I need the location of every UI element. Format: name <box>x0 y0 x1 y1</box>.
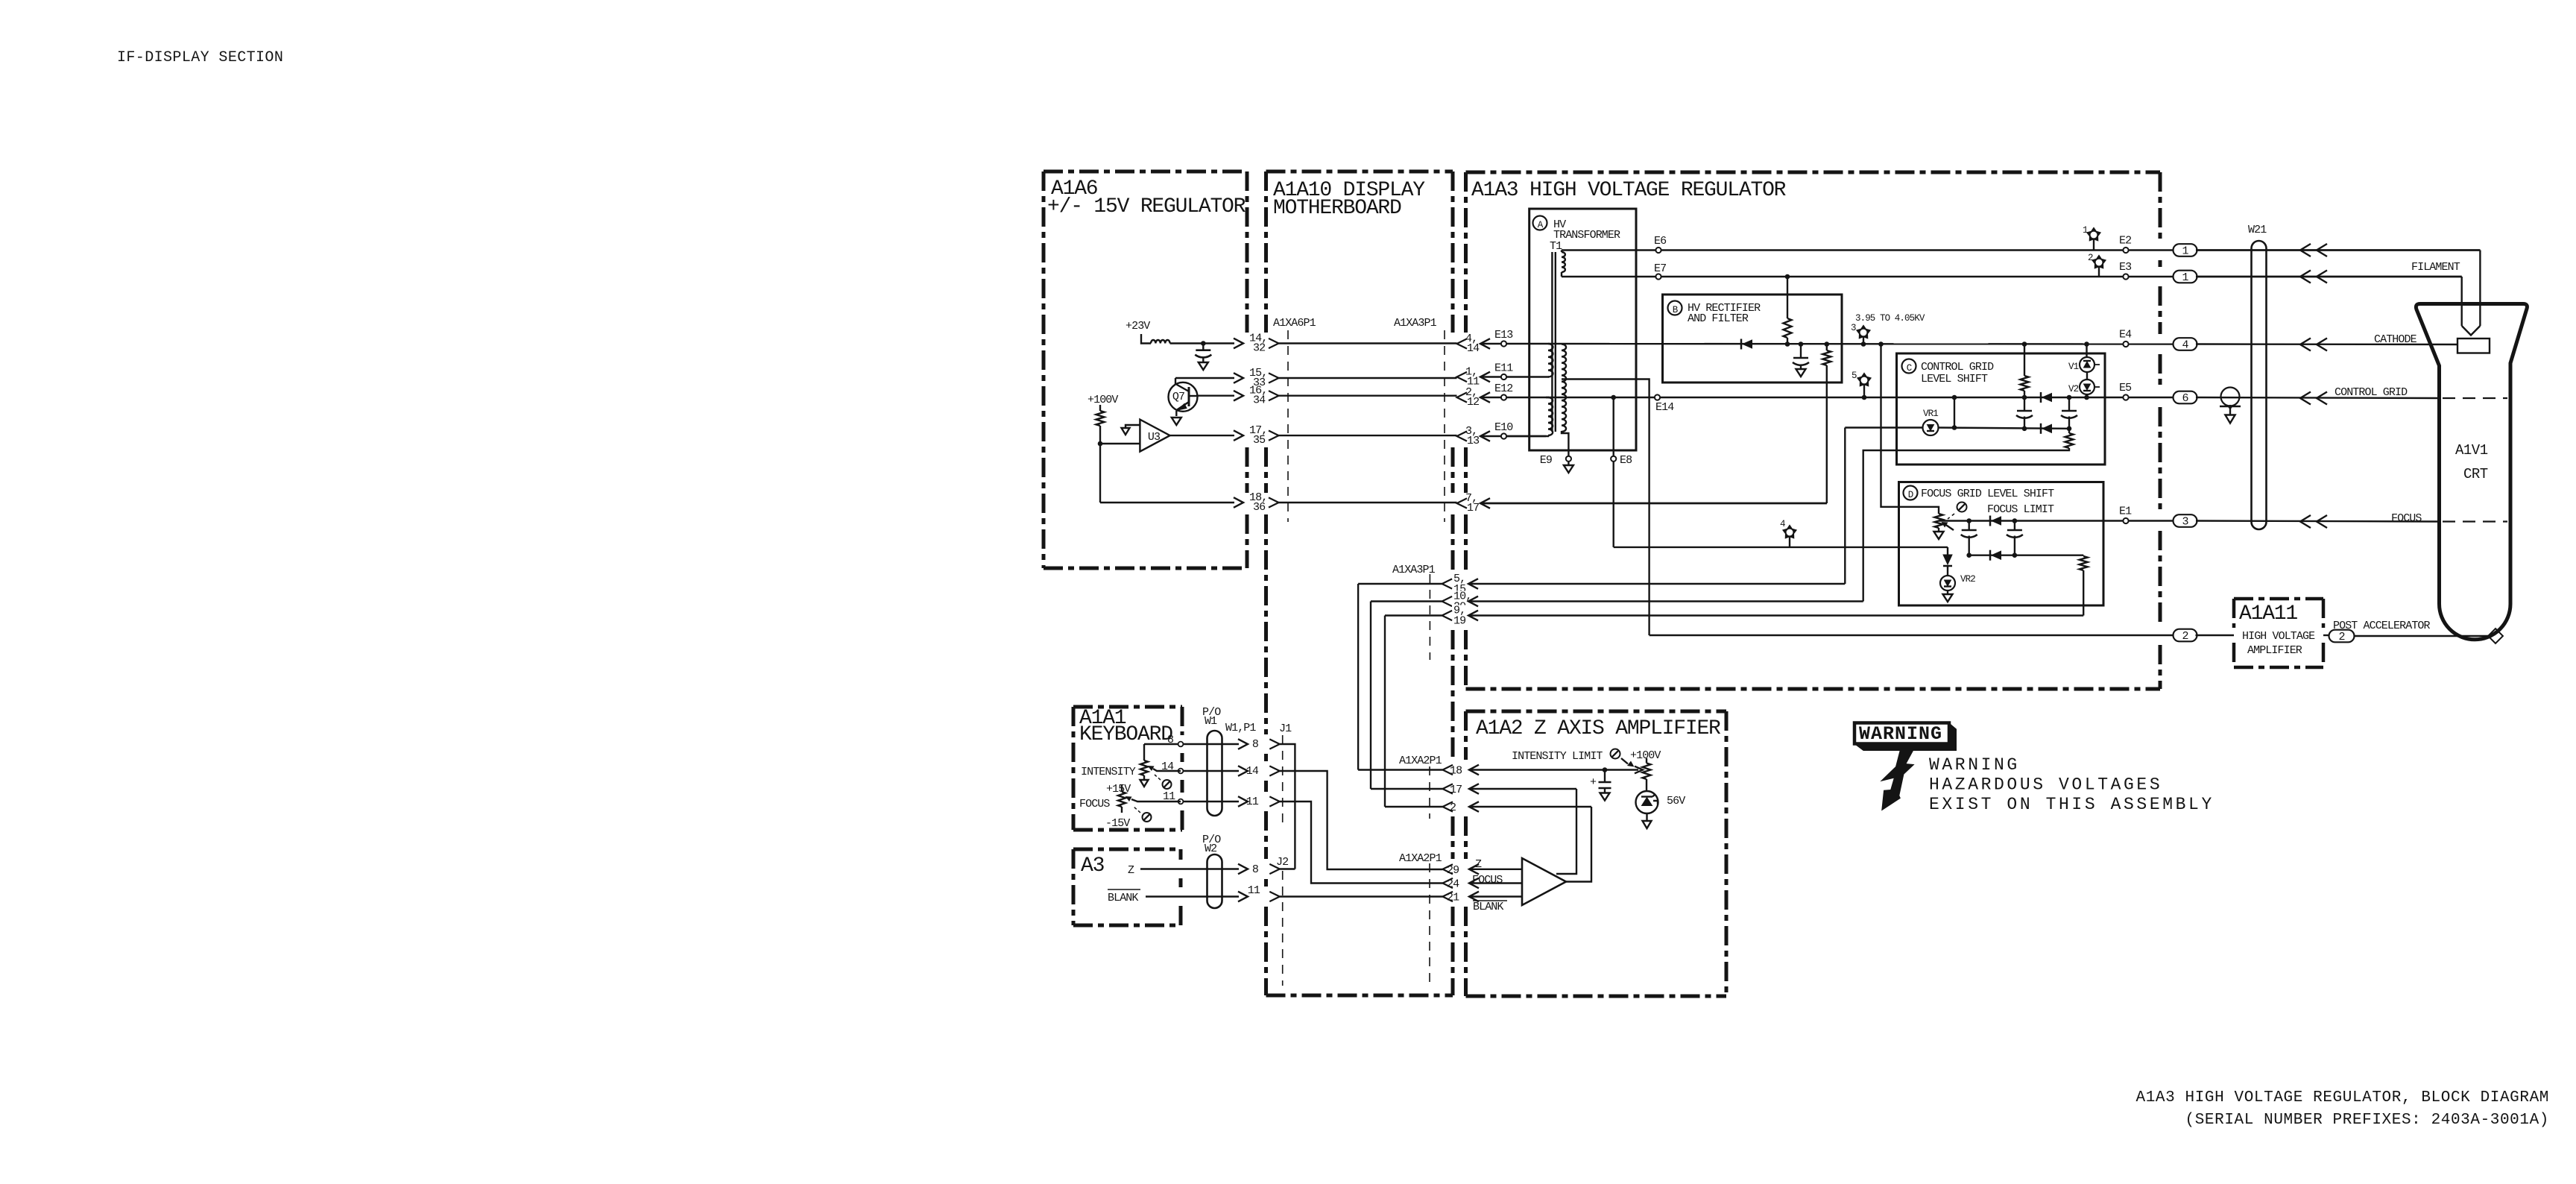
wire row 18 <box>1469 769 1605 770</box>
svg-text:A1XA2P1: A1XA2P1 <box>1399 755 1442 767</box>
svg-text:FOCUS: FOCUS <box>1472 874 1503 887</box>
svg-text:2: 2 <box>1450 802 1456 814</box>
terminal oval 4 <box>2173 338 2197 350</box>
svg-text:WARNING: WARNING <box>1859 723 1942 745</box>
connector chevron 2,12 <box>1457 392 1468 402</box>
resistor R6 <box>2080 556 2088 570</box>
terminal oval 3 <box>2173 514 2197 527</box>
svg-text:32: 32 <box>1253 342 1265 355</box>
svg-text:INTENSITY LIMIT: INTENSITY LIMIT <box>1512 750 1603 763</box>
wire row 2 to amp output <box>1566 807 1591 882</box>
ground <box>1140 780 1149 787</box>
svg-text:2: 2 <box>2182 630 2188 643</box>
junction E7/rectifier <box>1785 274 1790 280</box>
svg-text:J1: J1 <box>1279 722 1292 735</box>
warning lightning bolt <box>1880 751 1914 811</box>
transformer winding left A <box>1548 344 1553 377</box>
wire E13/E4 cathode line <box>1546 343 2174 345</box>
star 5 <box>1857 374 1871 386</box>
ground <box>1643 821 1652 828</box>
svg-text:+15V: +15V <box>1106 783 1131 796</box>
svg-text:CATHODE: CATHODE <box>2374 333 2417 346</box>
wire row 17/35 from U3 <box>1170 435 1234 436</box>
connector chevron 18 <box>1443 765 1453 775</box>
feedthrough <box>1178 742 1184 747</box>
wire into A1A3 <box>1480 376 1549 377</box>
svg-text:11: 11 <box>1248 884 1260 897</box>
box A3 <box>1073 848 1181 851</box>
svg-text:1: 1 <box>2182 271 2188 284</box>
connector chevron 24 <box>1443 878 1453 888</box>
connector line A1XA3P1 upper <box>1444 330 1445 522</box>
VR1 zener <box>1923 420 1939 435</box>
ground at E9 <box>1568 462 1569 465</box>
wire J1-14 to 29 <box>1280 771 1443 869</box>
svg-text:BLANK: BLANK <box>1108 892 1138 904</box>
cable W2 <box>1207 854 1222 908</box>
capacitor C5 <box>1962 529 1977 532</box>
arrow <box>1469 784 1479 794</box>
wiper <box>1153 769 1181 771</box>
op-amp A1A2 <box>1522 858 1566 905</box>
wire into A1A3 <box>1480 503 1827 504</box>
svg-text:E12: E12 <box>1494 382 1512 395</box>
terminal E4 <box>2123 341 2128 347</box>
wire 9,19 left <box>1385 614 1442 616</box>
arrow out 14/32 <box>1234 338 1243 349</box>
svg-text:FOCUS GRID LEVEL SHIFT: FOCUS GRID LEVEL SHIFT <box>1921 488 2054 500</box>
svg-text:8: 8 <box>1252 863 1259 876</box>
connector chevron 5,15 <box>1442 579 1453 588</box>
connector chevron <box>1269 373 1279 382</box>
terminal E12 <box>1501 394 1506 400</box>
wire 10,20 right <box>1468 600 1863 602</box>
connector chevron J1-14 <box>1269 766 1280 775</box>
svg-text:AND FILTER: AND FILTER <box>1688 312 1749 325</box>
svg-text:E5: E5 <box>2119 382 2132 394</box>
control grid dashed <box>2443 397 2507 399</box>
gas tube V1 <box>2080 357 2094 372</box>
potentiometer intensity <box>1140 761 1148 775</box>
svg-text:W2: W2 <box>1205 843 1216 855</box>
connector chevron J1-8 <box>1269 739 1280 749</box>
svg-text:(SERIAL NUMBER PREFIXES: 2403A: (SERIAL NUMBER PREFIXES: 2403A-3001A) <box>2185 1112 2549 1129</box>
wire E7 filament line <box>1562 276 2462 277</box>
wiper <box>1131 799 1181 802</box>
star 2 <box>2092 256 2106 268</box>
wire J1-8 down <box>1280 744 1295 869</box>
arrow in <box>1480 392 1490 403</box>
terminal E3 <box>2123 274 2128 279</box>
svg-text:21: 21 <box>1447 892 1459 904</box>
junction E4/focus feed <box>1878 341 1884 347</box>
svg-text:A1XA6P1: A1XA6P1 <box>1273 317 1316 330</box>
svg-text:FILAMENT: FILAMENT <box>2411 261 2460 274</box>
svg-text:FOCUS LIMIT: FOCUS LIMIT <box>1987 503 2054 516</box>
screwdriver <box>1163 780 1172 789</box>
arrow <box>1468 611 1478 621</box>
ground <box>2225 415 2235 423</box>
wire E8 to E14 line <box>1612 397 1614 456</box>
svg-text:E11: E11 <box>1494 362 1513 375</box>
svg-text:A1XA3P1: A1XA3P1 <box>1394 317 1437 330</box>
wire through motherboard <box>1279 502 1457 503</box>
diode CR5 <box>1989 550 1992 561</box>
wire through motherboard <box>1279 435 1457 436</box>
wire secondary bottom to E9 <box>1562 431 1568 456</box>
arrow <box>1469 802 1479 812</box>
arrow <box>1469 878 1479 889</box>
wire 10/20 to XA2P1-17 <box>1370 602 1371 790</box>
arrow <box>1469 892 1479 902</box>
svg-text:TRANSFORMER: TRANSFORMER <box>1553 229 1620 242</box>
ground below Q7 <box>1172 418 1181 425</box>
screwdriver adjust <box>1957 503 1967 512</box>
connector chevron 10,20 <box>1442 596 1453 606</box>
capacitor C7 <box>1599 781 1611 784</box>
connector chevron J1-11 <box>1269 796 1280 806</box>
terminal E7 <box>1655 274 1661 279</box>
svg-text:INTENSITY: INTENSITY <box>1081 766 1136 778</box>
wire 9,19 right <box>1468 614 2083 616</box>
wire transformer tap to post accel <box>1562 380 1650 636</box>
wire post accel to CRT <box>2355 635 2491 637</box>
arrow <box>2300 244 2311 256</box>
svg-text:24: 24 <box>1447 878 1459 891</box>
svg-text:VR1: VR1 <box>1923 409 1938 419</box>
wire <box>2024 397 2025 411</box>
wire into A1A3 <box>1480 343 1546 344</box>
svg-text:A1A11: A1A11 <box>2239 602 2297 626</box>
arrow in <box>1480 338 1490 349</box>
svg-text:E1: E1 <box>2119 506 2132 518</box>
wire E3 to CRT <box>2196 276 2462 277</box>
connector chevron 7,17 <box>1457 498 1468 508</box>
wire row 18 left <box>1358 769 1442 770</box>
wire +100V to U3/row18 <box>1099 426 1101 503</box>
wire 9/19 to XA2P1-2 <box>1384 616 1386 807</box>
svg-text:IF-DISPLAY SECTION: IF-DISPLAY SECTION <box>117 49 283 66</box>
svg-text:AMPLIFIER: AMPLIFIER <box>2247 644 2302 657</box>
junction <box>1825 341 1830 347</box>
box A1A2 Z axis amplifier <box>1466 710 1727 714</box>
wire through motherboard <box>1279 395 1457 397</box>
arrow <box>2300 271 2311 283</box>
svg-text:A1A3 HIGH VOLTAGE REGULATOR, B: A1A3 HIGH VOLTAGE REGULATOR, BLOCK DIAGR… <box>2136 1089 2550 1106</box>
svg-text:E2: E2 <box>2119 235 2131 248</box>
svg-text:E7: E7 <box>1654 262 1666 275</box>
svg-text:A1A3 HIGH VOLTAGE REGULATOR: A1A3 HIGH VOLTAGE REGULATOR <box>1471 179 1787 202</box>
wire VR1 to diodes <box>1939 428 2070 429</box>
box D focus grid level shift <box>1899 482 2104 606</box>
wire post accelerator line <box>1650 634 2175 636</box>
connector diamond <box>2488 629 2503 643</box>
connector chevron 3,13 <box>1457 431 1468 441</box>
terminal E10 <box>1501 433 1506 438</box>
terminal oval 6 <box>2173 391 2197 404</box>
wire J2-8 <box>1280 868 1295 869</box>
svg-text:14: 14 <box>1246 765 1259 778</box>
wire through motherboard <box>1279 342 1457 344</box>
connector line J2 <box>1282 871 1284 986</box>
cable W21 <box>2252 241 2267 529</box>
terminal oval 2 <box>2173 629 2197 642</box>
box B HV rectifier and filter <box>1663 295 1843 382</box>
svg-text:A3: A3 <box>1081 854 1105 878</box>
svg-text:HIGH VOLTAGE: HIGH VOLTAGE <box>2242 630 2315 643</box>
ground <box>1199 362 1208 370</box>
svg-text:18: 18 <box>1450 765 1462 778</box>
capacitor C4 <box>2062 410 2077 412</box>
svg-text:E4: E4 <box>2119 329 2132 341</box>
arrow <box>1238 766 1248 776</box>
transformer secondary winding right <box>1562 344 1566 432</box>
svg-text:LEVEL SHIFT: LEVEL SHIFT <box>1921 373 1988 385</box>
potentiometer focus <box>1118 792 1126 807</box>
transistor Q7 <box>1169 382 1198 412</box>
arrow <box>1238 739 1248 749</box>
svg-text:+: + <box>1590 776 1597 789</box>
wire E6 filament line <box>1562 249 2480 251</box>
arrow <box>2300 392 2311 405</box>
transformer primary winding <box>1562 252 1565 272</box>
svg-text:E3: E3 <box>2119 261 2132 274</box>
feedthrough <box>1178 799 1184 804</box>
svg-text:FOCUS: FOCUS <box>2391 512 2422 525</box>
zener VR3 56V <box>1636 791 1658 813</box>
arrow <box>2317 515 2327 528</box>
svg-text:J2: J2 <box>1276 856 1288 869</box>
svg-text:T1: T1 <box>1550 240 1562 253</box>
svg-text:13: 13 <box>1467 435 1480 447</box>
box A1A1 keyboard <box>1073 705 1182 709</box>
zener VR2 <box>1940 576 1955 591</box>
wire VR1 line <box>1845 426 1922 428</box>
svg-text:FOCUS: FOCUS <box>1079 798 1110 810</box>
wire through motherboard <box>1279 377 1457 379</box>
svg-text:2: 2 <box>2338 631 2344 643</box>
svg-text:5: 5 <box>1851 371 1857 381</box>
arrow <box>1468 596 1478 607</box>
svg-text:W1: W1 <box>1205 715 1217 728</box>
svg-text:A1A2 Z AXIS AMPLIFIER: A1A2 Z AXIS AMPLIFIER <box>1476 717 1721 740</box>
terminal E2 <box>2123 248 2128 253</box>
wire row 21 <box>1469 895 1522 897</box>
svg-text:17: 17 <box>1450 784 1462 796</box>
wire E8 to VR2 branch <box>1614 547 1948 548</box>
connector chevron 9,19 <box>1442 611 1453 620</box>
wire 5,15 left <box>1358 583 1442 585</box>
junction <box>1799 341 1804 347</box>
svg-text:8: 8 <box>1167 734 1174 746</box>
svg-text:3: 3 <box>1851 323 1856 333</box>
wire E2 to CRT <box>2196 249 2480 251</box>
svg-text:19: 19 <box>1453 615 1465 628</box>
wiper arrow <box>1635 766 1643 774</box>
terminal E5 <box>2123 394 2128 400</box>
connector chevron 17 <box>1443 784 1453 793</box>
svg-text:+100V: +100V <box>1630 749 1661 762</box>
connector chevron 21 <box>1443 892 1453 901</box>
arrow <box>2317 271 2327 283</box>
resistor R5 <box>2065 433 2074 448</box>
connector chevron 1,11 <box>1457 372 1468 382</box>
wire row 17 left <box>1371 788 1443 790</box>
svg-text:34: 34 <box>1253 394 1266 407</box>
warning sign shadow <box>1854 723 1957 751</box>
svg-text:CRT: CRT <box>2463 466 2488 482</box>
svg-text:C: C <box>1907 363 1912 374</box>
box A HV transformer <box>1529 209 1636 450</box>
svg-text:36: 36 <box>1253 501 1266 514</box>
svg-text:E8: E8 <box>1620 454 1632 467</box>
svg-text:W21: W21 <box>2248 224 2267 236</box>
diode CR3 <box>2040 423 2042 434</box>
svg-text:BLANK: BLANK <box>1473 901 1503 913</box>
wire post accel to A1A11 <box>2196 634 2235 636</box>
diode CR4 <box>1989 516 1992 526</box>
feedthrough <box>1178 769 1184 774</box>
svg-text:Q7: Q7 <box>1172 391 1184 403</box>
wire resistor to 9/19 <box>2083 570 2084 616</box>
overline <box>1108 889 1140 890</box>
arrow in <box>1480 372 1490 382</box>
wire U3 + input to ground <box>1126 425 1140 428</box>
connector chevron 2 <box>1443 802 1453 811</box>
wire resistor to row 7/17 <box>1826 365 1828 503</box>
svg-text:1: 1 <box>2182 245 2188 258</box>
svg-text:+/- 15V REGULATOR: +/- 15V REGULATOR <box>1047 195 1246 218</box>
wire row 2 <box>1469 806 1591 807</box>
arrow <box>2300 515 2311 528</box>
screwdriver adjust <box>1611 749 1620 759</box>
connector line A1XA6P1 <box>1287 330 1289 522</box>
CRT A1V1 envelope <box>2416 304 2527 640</box>
resistor R3 <box>1822 350 1831 365</box>
capacitor C1 <box>1196 349 1210 351</box>
wire row 16/34 <box>1198 395 1235 397</box>
star 4 <box>1783 526 1796 538</box>
star 3 <box>1857 326 1870 338</box>
svg-text:CONTROL GRID: CONTROL GRID <box>2334 386 2408 399</box>
pot intensity limit <box>1646 758 1647 763</box>
terminal oval 1 <box>2173 271 2197 283</box>
junction <box>1952 425 1957 430</box>
connector chevron 4,14 <box>1457 338 1468 348</box>
transformer winding left B <box>1548 397 1553 435</box>
wire row 14/32 <box>1170 342 1234 344</box>
svg-text:+100V: +100V <box>1087 394 1118 406</box>
cathode element <box>2457 338 2490 353</box>
connector line A1XA2P1 lower <box>1429 863 1430 986</box>
wire E8 down <box>1612 462 1614 547</box>
connector line A1XA2P1 upper <box>1429 766 1430 819</box>
svg-text:E14: E14 <box>1655 401 1674 414</box>
wire 10,20 left <box>1371 600 1442 602</box>
svg-text:6: 6 <box>2182 392 2188 405</box>
wire BLANK <box>1146 895 1239 897</box>
connector chevron <box>1269 391 1279 400</box>
svg-text:VR2: VR2 <box>1960 574 1975 585</box>
svg-text:E6: E6 <box>1654 235 1667 248</box>
arrow <box>1469 864 1479 875</box>
svg-text:A1XA3P1: A1XA3P1 <box>1392 564 1436 576</box>
wire E5 to control grid <box>2196 397 2439 398</box>
wire row 2 left <box>1385 806 1443 807</box>
svg-text:35: 35 <box>1253 434 1266 447</box>
connector line A1XA3P1 lower <box>1429 574 1430 660</box>
terminal E1 <box>2123 518 2128 523</box>
wire Z <box>1140 868 1239 869</box>
wire <box>2024 344 2025 377</box>
resistor R7 <box>1643 763 1651 780</box>
wire <box>1954 397 1955 428</box>
svg-text:56V: 56V <box>1667 795 1685 807</box>
wire E4 to focus pot <box>1881 344 1939 514</box>
wire row 17 <box>1469 788 1576 790</box>
terminal oval 1 <box>2173 244 2197 256</box>
resistor R2 <box>1784 318 1792 338</box>
connector chevron J2-11 <box>1269 892 1280 901</box>
capacitor C6 <box>2007 529 2022 532</box>
terminal E8 <box>1611 456 1616 462</box>
svg-text:HAZARDOUS VOLTAGES: HAZARDOUS VOLTAGES <box>1929 775 2162 795</box>
box A1A6 +/-15V regulator <box>1044 170 1247 174</box>
wire row 17 to amp <box>1556 789 1576 874</box>
svg-text:CONTROL GRID: CONTROL GRID <box>1921 361 1994 374</box>
svg-text:14: 14 <box>1467 342 1480 355</box>
screwdriver pointer <box>1621 758 1628 764</box>
terminal E9 <box>1566 456 1571 462</box>
terminal E6 <box>1655 248 1661 253</box>
connector line J1 <box>1282 735 1284 826</box>
svg-text:POST ACCELERATOR: POST ACCELERATOR <box>2333 620 2431 632</box>
box A1A10 display motherboard <box>1266 170 1453 174</box>
ground below pot <box>1934 532 1944 539</box>
svg-text:D: D <box>1908 490 1913 500</box>
terminal E13 <box>1501 341 1506 346</box>
svg-text:2: 2 <box>2088 253 2093 263</box>
potentiometer focus <box>1935 514 1943 528</box>
ground <box>1600 793 1610 801</box>
svg-text:-15V: -15V <box>1105 817 1130 830</box>
svg-text:KEYBOARD: KEYBOARD <box>1079 723 1172 746</box>
connector chevron 29 <box>1443 864 1453 874</box>
svg-text:WARNING: WARNING <box>1929 755 2020 775</box>
box A1A3 high voltage regulator <box>1466 171 2161 174</box>
wire into A1A3 <box>1480 435 1546 437</box>
wire row 24 <box>1469 882 1522 884</box>
wire row 7/17 <box>1480 503 1827 504</box>
resistor R1 <box>1096 411 1105 426</box>
junction <box>1603 767 1608 772</box>
wire to wiper <box>1605 769 1638 770</box>
svg-text:29: 29 <box>1447 864 1459 877</box>
terminal oval 2 right <box>2329 630 2355 643</box>
op-amp U3 <box>1140 420 1169 452</box>
wire U3 - input <box>1100 443 1140 444</box>
wire row 18/36 <box>1100 502 1234 503</box>
wire row 15/33 <box>1175 377 1234 379</box>
wire feedback to 10/20 <box>1863 448 2069 602</box>
ground below VR2 <box>1943 594 1953 602</box>
wire keyboard pin 11 <box>1181 801 1239 802</box>
wire focus limit row <box>1939 520 1969 521</box>
wire to E1 <box>1969 520 2174 521</box>
box A1A11 high voltage amplifier <box>2234 597 2323 601</box>
wire lower focus row <box>1969 555 2084 556</box>
svg-text:+23V: +23V <box>1126 320 1150 333</box>
